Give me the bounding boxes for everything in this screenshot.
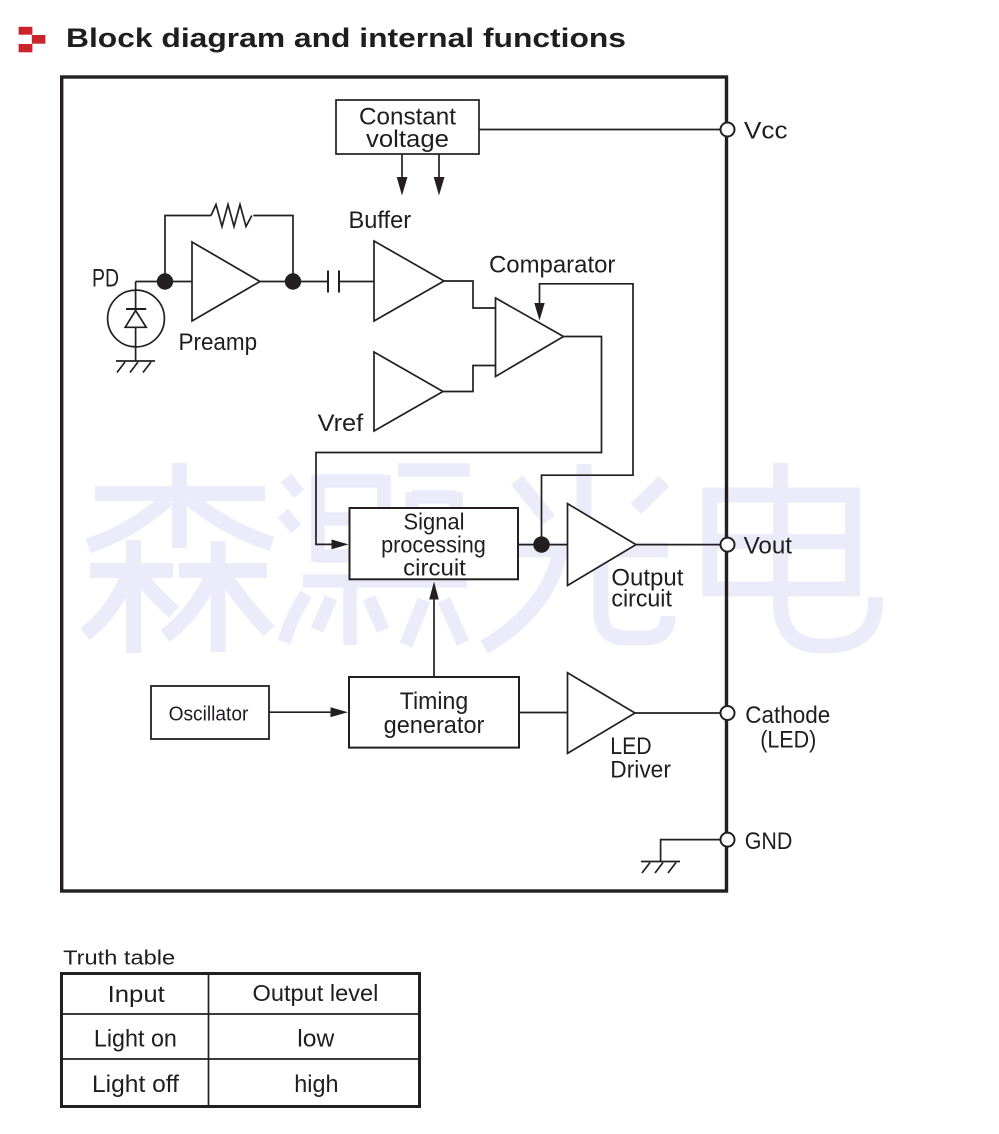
wire PD to preamp input [136,281,192,283]
svg-text:Vref: Vref [318,410,364,437]
regulator U1 Constant voltage box [336,100,479,154]
svg-text:Light on: Light on [94,1025,177,1052]
truth table [60,972,421,1107]
comparator [489,252,615,377]
svg-text:voltage: voltage [366,126,449,153]
section marker icon [19,27,46,53]
svg-text:circuit: circuit [611,586,672,613]
arrowhead into signal processing bottom [429,582,439,600]
svg-text:low: low [297,1025,334,1052]
svg-text:Vout: Vout [744,533,793,560]
svg-text:PD: PD [92,265,119,293]
wire timing generator to led driver [519,712,568,714]
buffer amplifier [349,207,445,321]
terminal GND [721,828,793,855]
watermark character HAO (vast) [283,470,470,645]
wire comparator output to signal processing [316,337,602,545]
svg-text:circuit: circuit [403,555,466,581]
supply arrow 2 [434,154,445,196]
IC outline frame [62,77,727,891]
wire output circuit to Vout [636,544,721,546]
svg-text:(LED): (LED) [760,727,816,754]
watermark character GUANG (light) [484,464,668,647]
svg-text:Buffer: Buffer [349,207,412,234]
wire feedback up [165,216,211,282]
svg-text:Light off: Light off [92,1071,179,1098]
op-amp Vref [318,352,443,437]
LED driver amplifier [568,673,671,784]
op-amp preamp [179,242,261,356]
terminal Vout [721,533,793,560]
photodiode PD [92,265,164,347]
svg-text:GND: GND [745,828,793,855]
wire PD vertical [135,282,137,362]
oscillator box [151,686,269,739]
signal processing circuit box [350,508,519,581]
svg-text:Output level: Output level [253,980,379,1006]
output circuit amplifier [568,504,684,613]
watermark character DIAN (electric) [703,463,876,646]
wire vref to comparator [443,366,495,392]
arrowhead into signal processing [332,540,349,550]
wire buffer to comparator [444,281,495,308]
svg-text:Block diagram and internal fun: Block diagram and internal functions [66,23,626,53]
wire hysteresis feedback [540,284,634,545]
svg-text:Comparator: Comparator [489,252,615,279]
wire timing generator up to signal processing [433,595,435,677]
timing generator box [349,677,519,748]
supply arrow 1 [397,154,408,196]
resistor R1 feedback [211,205,252,227]
svg-text:Preamp: Preamp [179,329,258,356]
wire feedback down [253,216,293,282]
svg-text:Driver: Driver [610,757,671,784]
capacitor C1 coupling [328,271,339,293]
svg-text:Input: Input [108,981,166,1007]
wire constant voltage to Vcc [479,129,721,131]
wire preamp output [260,281,328,283]
svg-text:Truth table: Truth table [63,948,175,970]
arrowhead into comparator top [534,303,544,321]
wire led driver to cathode [635,712,721,714]
wire capacitor to buffer [339,281,374,283]
svg-text:Oscillator: Oscillator [169,703,249,725]
terminal Cathode LED [721,702,831,754]
watermark character SEN (tree) [85,463,272,653]
svg-text:Timing: Timing [400,688,469,715]
wire oscillator to timing generator [269,711,332,713]
wire signal processing to output circuit [518,544,568,546]
node A input [157,273,173,289]
arrowhead into timing generator [331,707,349,717]
svg-text:Vcc: Vcc [744,118,788,145]
node C vout feed [533,536,549,552]
ground GND [641,862,680,874]
node B output [285,273,301,289]
svg-text:Cathode: Cathode [745,702,830,729]
wire GND to ground [661,840,721,862]
ground PD [116,361,155,373]
svg-text:high: high [294,1071,338,1098]
terminal Vcc [721,118,788,145]
svg-text:generator: generator [384,712,485,739]
